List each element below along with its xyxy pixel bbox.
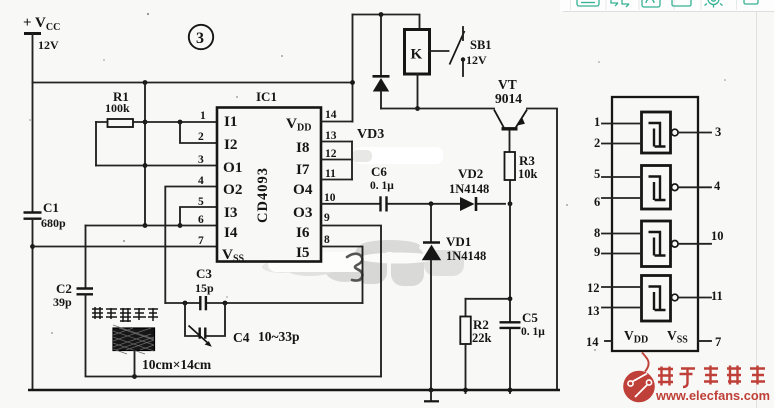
svg-text:O1: O1: [223, 159, 242, 176]
gate G4 input pin 13: [602, 307, 642, 309]
transistor VT 9014: [494, 77, 527, 129]
toolbar icon 1: [577, 0, 599, 6]
svg-text:0. 1μ: 0. 1μ: [370, 180, 394, 192]
capacitor C4 variable loop: [185, 303, 300, 347]
wire pin8 to C3 row: [321, 247, 363, 304]
resistor R2: [460, 299, 491, 393]
toolbar icon 2: [611, 0, 629, 7]
power symbol +Vcc: [23, 15, 60, 52]
gate G1 input pin 1: [602, 123, 642, 125]
svg-text:10cm×14cm: 10cm×14cm: [142, 357, 212, 372]
svg-text:10: 10: [324, 192, 336, 204]
svg-text:5: 5: [594, 167, 600, 181]
svg-text:12V: 12V: [466, 53, 487, 67]
svg-text:O3: O3: [293, 204, 313, 221]
capacitor C3: [195, 266, 214, 310]
svg-text:7: 7: [715, 335, 721, 349]
svg-text:1N4148: 1N4148: [446, 249, 486, 263]
svg-text:6: 6: [198, 214, 204, 226]
wire stub tie 13-12-11: [351, 142, 353, 180]
circled figure number 3: [189, 25, 213, 49]
node VD3 branch top: [379, 12, 384, 17]
node C3 row right loop: [223, 301, 228, 306]
svg-text:12: 12: [325, 148, 337, 160]
IC1 right pin labels: [286, 115, 313, 261]
svg-text:CD4093: CD4093: [255, 167, 271, 223]
pinout Vdd pin 14: [605, 340, 612, 342]
svg-text:1: 1: [594, 115, 600, 129]
node left rail / Vss line: [30, 244, 35, 249]
svg-text:C6: C6: [371, 164, 387, 179]
svg-text:13: 13: [587, 304, 600, 318]
node K bottom: [415, 106, 420, 111]
svg-text:10~33p: 10~33p: [258, 329, 300, 344]
svg-text:I4: I4: [224, 224, 238, 241]
svg-text:9014: 9014: [495, 91, 522, 106]
svg-text:22k: 22k: [472, 331, 492, 345]
svg-text:3: 3: [196, 30, 204, 47]
diode VD3: [357, 15, 390, 143]
svg-text:I8: I8: [296, 139, 310, 156]
pinout Vss pin 7: [698, 340, 711, 342]
wire pin11 stub: [321, 179, 352, 181]
svg-text:I5: I5: [296, 244, 310, 261]
node top rail x145: [143, 80, 148, 85]
node rail C5: [508, 388, 513, 393]
svg-text:0. 1μ: 0. 1μ: [521, 326, 545, 338]
svg-text:C5: C5: [522, 310, 538, 325]
svg-text:12: 12: [587, 281, 600, 295]
wire pin6 row: [86, 225, 218, 227]
svg-text:4: 4: [198, 175, 204, 187]
svg-text:1: 1: [200, 110, 206, 122]
svg-text:SB1: SB1: [470, 38, 492, 52]
watermark text: [658, 366, 765, 388]
svg-text:www.elecfans.com: www.elecfans.com: [655, 388, 770, 403]
svg-text:3: 3: [198, 154, 204, 166]
resistor R3: [505, 152, 538, 181]
node riser top rail: [350, 80, 355, 85]
svg-text:VT: VT: [498, 77, 517, 92]
svg-text:7: 7: [198, 235, 204, 247]
svg-text:100k: 100k: [105, 101, 130, 115]
wire v85.5 lower to inner bottom: [86, 295, 382, 377]
wire R2 top tie: [466, 298, 511, 300]
gate G2 input pin 6: [602, 197, 642, 199]
svg-text:11: 11: [711, 289, 723, 303]
wire relay riser x352.5: [352, 15, 354, 122]
svg-text:14: 14: [325, 109, 337, 121]
capacitor C6: [370, 164, 394, 212]
toolbar icon 4: [672, 0, 691, 6]
toolbar icon 3: [642, 0, 660, 7]
node pin5/6 link: [178, 223, 183, 228]
node plate stem: [132, 374, 137, 379]
wire pin3 row: [96, 165, 217, 167]
IC1 left pin labels: [222, 113, 245, 265]
gate G1 input pin 2: [602, 143, 642, 145]
svg-text:11: 11: [325, 168, 336, 180]
diode VD1: [422, 204, 486, 390]
gate G2: [642, 166, 679, 210]
svg-text:8: 8: [594, 226, 600, 240]
node pin1 x180: [178, 120, 183, 125]
capacitor C2: [53, 281, 93, 309]
ground stub: [430, 390, 432, 401]
IC1 left pin numbers: [198, 110, 206, 247]
node C3 row left loop: [183, 301, 188, 306]
wire emitter to right rail: [527, 109, 557, 391]
wire pin4 to C3 row: [165, 187, 217, 304]
svg-text:15p: 15p: [195, 281, 214, 295]
wire pin5 link: [180, 207, 217, 226]
wire R3 bottom: [509, 180, 511, 204]
svg-text:10k: 10k: [518, 167, 538, 181]
svg-text:C3: C3: [196, 266, 212, 281]
gate G4 output pin 11: [678, 297, 711, 299]
smudge white patch above C6: [352, 147, 443, 164]
gate G4 input pin 12: [602, 286, 642, 288]
wire pin7 Vss row: [33, 246, 218, 248]
toolbar icon 6: [744, 0, 758, 4]
wire bottom rail: [28, 389, 560, 391]
svg-text:680p: 680p: [41, 216, 66, 230]
wire R3 node down through C5: [509, 204, 511, 393]
capacitor C1: [24, 200, 67, 230]
svg-text:O4: O4: [293, 181, 313, 198]
wire left rail lower: [32, 219, 34, 390]
svg-text:5: 5: [198, 196, 204, 208]
node x145 pin1 row: [143, 120, 148, 125]
relay K: [405, 30, 430, 75]
pinout outer box: [612, 97, 698, 351]
wire base to R3: [509, 131, 511, 152]
svg-text:I3: I3: [224, 204, 238, 221]
svg-text:VD2: VD2: [458, 166, 483, 181]
smudge gray blobs (erased watermark): [262, 240, 464, 286]
svg-text:K: K: [411, 47, 423, 63]
svg-text:6: 6: [594, 195, 600, 209]
wire O3 row pin10: [321, 203, 505, 205]
node VD1 branch: [429, 201, 434, 206]
gate G4: [642, 276, 679, 322]
svg-text:14: 14: [586, 335, 599, 349]
svg-text:C1: C1: [43, 200, 59, 215]
svg-text:VD3: VD3: [357, 127, 384, 142]
IC1 right pin numbers: [324, 109, 337, 246]
svg-text:IC1: IC1: [256, 89, 277, 104]
sensor plate electrode: [113, 325, 155, 354]
wire plate stem: [134, 351, 136, 377]
smudge dark squiggle remnant: [347, 254, 362, 281]
faint page divider vertical: [756, 12, 758, 408]
wire pin13 stub: [321, 141, 352, 143]
svg-text:R3: R3: [519, 153, 535, 168]
node x145 pin3 row: [143, 163, 148, 168]
svg-text:8: 8: [324, 234, 330, 246]
wire relay top: [353, 15, 420, 30]
svg-text:2: 2: [594, 136, 600, 150]
gate G1 output pin 3: [678, 132, 711, 134]
wire top rail: [33, 82, 353, 84]
resistor R1: [105, 89, 133, 127]
svg-text:I6: I6: [296, 224, 310, 241]
gate G3: [642, 221, 679, 267]
svg-text:O2: O2: [223, 181, 242, 198]
svg-text:4: 4: [714, 179, 721, 193]
IC1 box: [217, 89, 321, 262]
svg-text:C4: C4: [233, 330, 250, 345]
node rail VD1: [429, 388, 434, 393]
node rail R2: [463, 388, 468, 393]
pushbutton SB1: [430, 27, 492, 76]
wire pin9 to inner bottom: [321, 226, 381, 377]
svg-text:12V: 12V: [38, 38, 59, 52]
wire R1 row pin1: [96, 121, 217, 123]
wire K bottom: [417, 74, 419, 109]
node O3 row R3: [508, 201, 513, 206]
svg-text:2: 2: [198, 131, 204, 143]
smudge white patch below IC: [268, 252, 363, 272]
wire v85.5 upper: [85, 226, 87, 289]
toolbar button strip top right: [560, 0, 774, 12]
watermark logo circle: [623, 353, 655, 403]
svg-text:9: 9: [324, 212, 330, 224]
capacitor C5: [500, 310, 546, 338]
node x145 pin6 row: [143, 223, 148, 228]
sensor plate label: [92, 307, 158, 322]
svg-text:I1: I1: [224, 113, 238, 130]
diode VD2: [449, 166, 489, 211]
svg-text:10: 10: [711, 229, 724, 243]
gate G1: [642, 112, 679, 153]
wire pin14 to relay riser: [321, 121, 353, 123]
svg-text:39p: 39p: [53, 295, 72, 309]
wire pin12 stub: [321, 159, 352, 161]
svg-text:1N4148: 1N4148: [449, 182, 489, 196]
gate G2 output pin 4: [678, 186, 711, 188]
svg-text:C2: C2: [56, 281, 72, 296]
svg-text:R2: R2: [473, 317, 489, 332]
toolbar icon 5: [705, 0, 723, 8]
wire collector row: [381, 108, 494, 110]
wire left rail upper: [32, 34, 34, 212]
svg-text:I2: I2: [224, 136, 238, 153]
wire pin2 link: [180, 122, 217, 143]
wire v96 R1 feedback: [95, 122, 97, 166]
svg-text:9: 9: [594, 245, 600, 259]
wire vertical x145: [144, 83, 146, 226]
svg-text:VD1: VD1: [446, 234, 471, 249]
gate G3 output pin 10: [678, 243, 711, 245]
svg-text:I7: I7: [296, 161, 310, 178]
gate G3 input pin 8: [602, 233, 642, 235]
node R2 top tie: [508, 296, 513, 301]
svg-text:3: 3: [715, 125, 721, 139]
gate G2 input pin 5: [602, 176, 642, 178]
gate G3 input pin 9: [602, 253, 642, 255]
wire C3 row: [165, 302, 362, 304]
svg-text:13: 13: [325, 130, 337, 142]
